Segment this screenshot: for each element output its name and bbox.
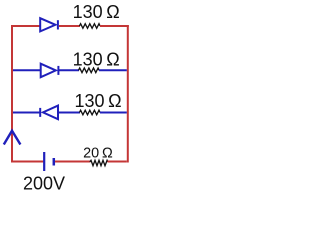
wire branch3 right segment (blue)	[100, 112, 127, 114]
wire branch1 left segment (red)	[11, 25, 40, 27]
wire branch2 right segment (blue)	[99, 69, 127, 71]
current arrow	[4, 131, 21, 145]
svg-text:200V: 200V	[23, 174, 65, 194]
wire branch2 left segment (blue)	[13, 69, 40, 71]
wire right vertical (red)	[127, 25, 129, 163]
diode D3 (reversed)	[40, 106, 58, 120]
wire branch1 mid segment (red)	[59, 25, 80, 27]
wire branch1 right segment (red)	[100, 25, 129, 27]
svg-text:130 Ω: 130 Ω	[73, 49, 120, 69]
wire left vertical (red)	[11, 25, 13, 163]
wire bottom right segment (red)	[108, 161, 127, 163]
wire bottom mid segment (red)	[55, 161, 91, 163]
battery plate short	[53, 158, 56, 166]
diode D2	[41, 64, 59, 77]
wire bottom left segment (red)	[12, 161, 44, 163]
wire branch2 mid segment (blue)	[59, 69, 79, 71]
resistor R3 130ohm	[79, 110, 100, 115]
resistor R2 130ohm	[79, 68, 100, 73]
resistor R1 130ohm	[79, 24, 100, 29]
wire branch3 left segment (blue)	[13, 112, 40, 114]
battery plate long	[43, 152, 45, 171]
wire branch3 mid segment (blue)	[58, 112, 80, 114]
svg-text:130 Ω: 130 Ω	[73, 2, 120, 22]
svg-text:20 Ω: 20 Ω	[83, 145, 113, 161]
svg-text:130 Ω: 130 Ω	[75, 91, 122, 111]
diode D1	[40, 18, 58, 31]
resistor R4 20ohm	[90, 160, 108, 165]
